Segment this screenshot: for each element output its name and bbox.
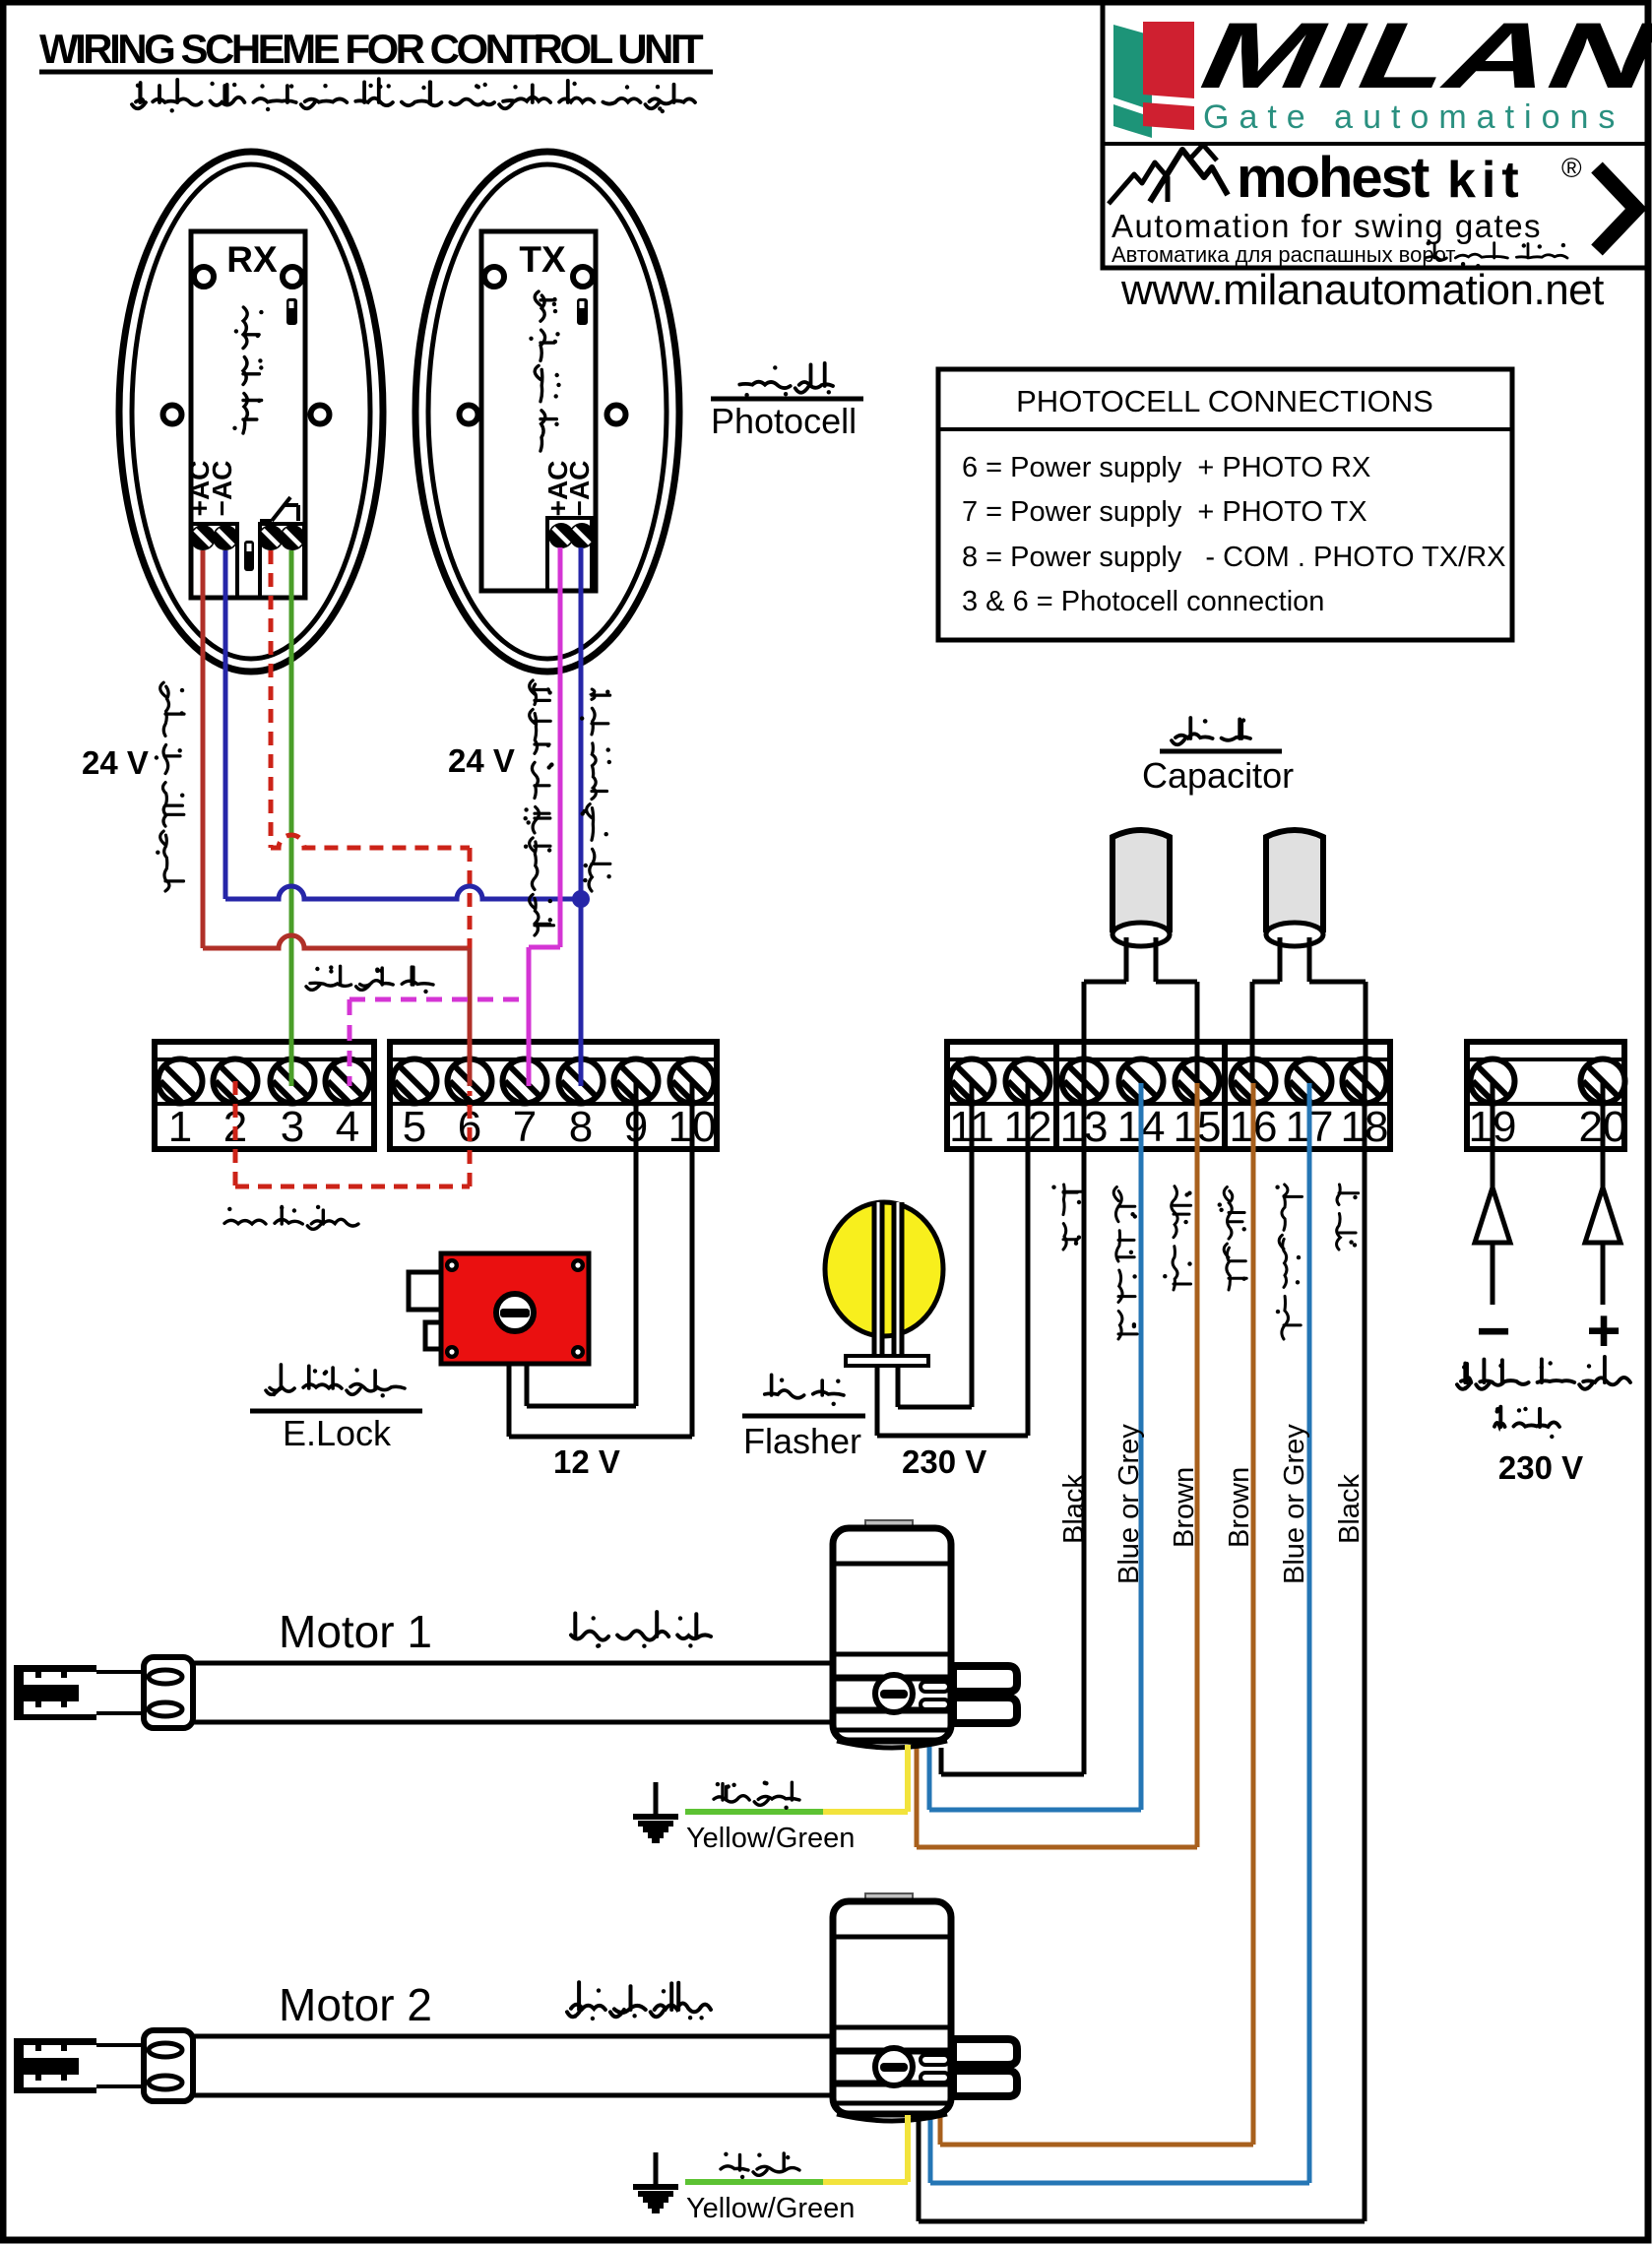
svg-text:Brown: Brown [1169,1467,1200,1548]
svg-text:24 V: 24 V [448,742,515,779]
svg-text:kit: kit [1447,152,1525,209]
svg-text:6 = Power supply + PHOTO RX: 6 = Power supply + PHOTO RX [962,452,1370,483]
svg-text:MILAN: MILAN [1182,3,1652,107]
svg-text:5: 5 [403,1103,426,1151]
svg-text:mohest: mohest [1237,146,1430,210]
svg-text:Yellow/Green: Yellow/Green [686,2193,855,2224]
svg-text:PHOTOCELL CONNECTIONS: PHOTOCELL CONNECTIONS [1016,384,1433,418]
svg-text:Flasher: Flasher [743,1421,861,1461]
svg-text:8: 8 [569,1103,593,1151]
svg-text:24 V: 24 V [82,744,149,781]
svg-text:7: 7 [513,1103,537,1151]
svg-text:230 V: 230 V [902,1443,986,1480]
svg-text:Motor 2: Motor 2 [279,1979,432,2030]
svg-text:+: + [1586,1298,1620,1364]
svg-text:www.milanautomation.net: www.milanautomation.net [1120,266,1604,314]
svg-text:Black: Black [1058,1474,1090,1544]
svg-text:−: − [1476,1298,1510,1364]
svg-text:3 & 6 = Photocell connection: 3 & 6 = Photocell connection [962,586,1324,617]
svg-text:Motor 1: Motor 1 [279,1606,432,1657]
svg-text:8 = Power supply - COM . PHO: 8 = Power supply - COM . PHOTO TX/RX [962,542,1506,573]
svg-text:Yellow/Green: Yellow/Green [686,1823,855,1854]
svg-text:230 V: 230 V [1498,1449,1583,1486]
svg-text:12 V: 12 V [553,1443,620,1480]
svg-text:−AC: −AC [207,461,237,517]
svg-text:Автоматика для распашных ворот: Автоматика для распашных ворот [1112,242,1455,267]
svg-text:Blue or Grey: Blue or Grey [1113,1424,1145,1584]
svg-text:4: 4 [336,1103,359,1151]
svg-text:Photocell: Photocell [711,401,857,441]
svg-text:1: 1 [168,1103,192,1151]
svg-text:Black: Black [1334,1474,1366,1544]
svg-text:−AC: −AC [564,461,595,517]
svg-text:Capacitor: Capacitor [1142,755,1294,796]
svg-text:WIRING SCHEME FOR CONTROL UNIT: WIRING SCHEME FOR CONTROL UNIT [39,26,704,72]
svg-text:Brown: Brown [1224,1467,1255,1548]
svg-text:3: 3 [281,1103,304,1151]
svg-text:E.Lock: E.Lock [283,1413,392,1453]
svg-text:RX: RX [226,239,278,280]
svg-text:Blue or Grey: Blue or Grey [1279,1424,1310,1584]
svg-text:TX: TX [519,239,566,280]
svg-text:Automation for swing gates: Automation for swing gates [1112,208,1542,244]
svg-text:7 = Power supply + PHOTO TX: 7 = Power supply + PHOTO TX [962,496,1367,528]
svg-text:Gate automations: Gate automations [1203,98,1624,136]
svg-text:®: ® [1561,153,1582,183]
